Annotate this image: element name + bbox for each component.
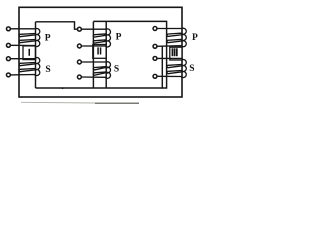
svg-text:P: P xyxy=(192,33,198,43)
svg-text:S: S xyxy=(114,65,119,75)
svg-text:S: S xyxy=(45,65,50,75)
svg-text:P: P xyxy=(116,33,122,43)
svg-text:P: P xyxy=(45,33,51,43)
svg-text:S: S xyxy=(189,64,194,74)
